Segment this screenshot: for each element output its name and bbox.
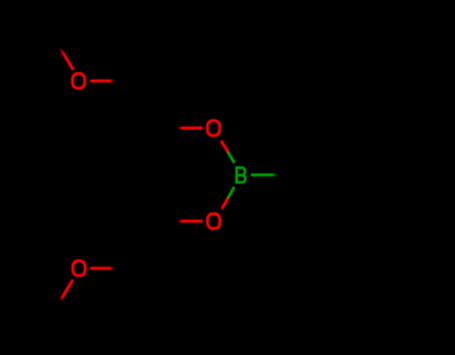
atom B (boron) [237, 168, 246, 184]
bond O4-CH3 (bottom methyl, red half fading down-left) [60, 280, 73, 302]
bond O3-CH2 (horizontal, red half fading left) [178, 220, 203, 223]
bond O2-B (diagonal, red upper half / green lower half) [221, 141, 234, 163]
bond O1-CH2 (horizontal, red half fading right) [90, 79, 114, 82]
bond CH2-O2 (horizontal, red half fading left) [178, 127, 203, 130]
atom O2 (upper-middle oxygen) [207, 121, 219, 136]
atom O4 (lower-left oxygen) [73, 261, 85, 276]
atom O3 (lower-middle oxygen) [208, 214, 220, 229]
bond B-C6H5 (horizontal to phenyl, green half fading right) [251, 173, 278, 176]
bond CH3-O1 (top methyl to upper-left oxygen, red half) [60, 48, 74, 70]
bond B-O3 (diagonal, green upper half / red lower half) [222, 187, 234, 209]
bond CH2-O4 (horizontal, red half fading right) [90, 267, 114, 270]
atom O1 (upper-left oxygen) [72, 73, 84, 88]
